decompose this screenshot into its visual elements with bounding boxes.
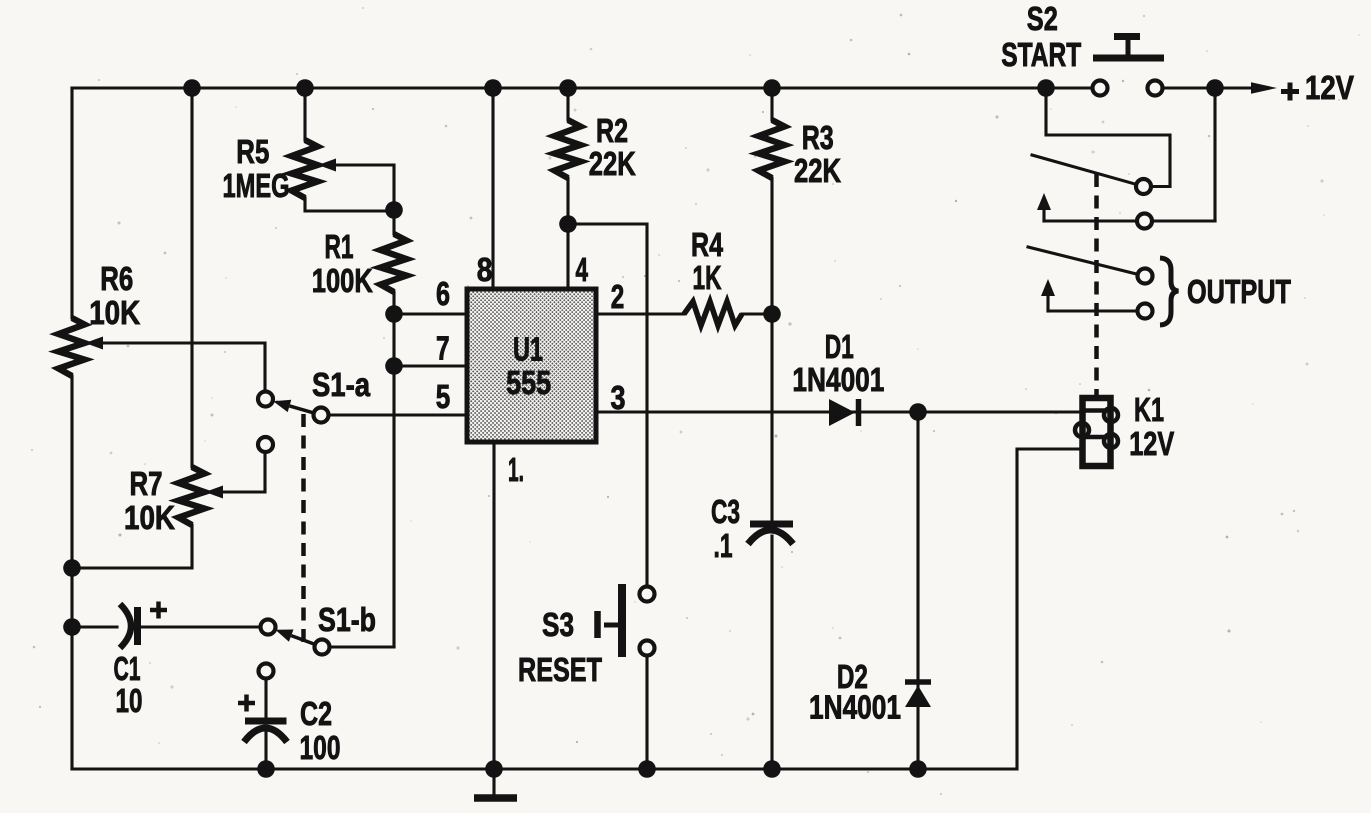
svg-text:R6: R6	[100, 260, 133, 297]
svg-text:2: 2	[611, 278, 625, 315]
svg-text:R7: R7	[130, 465, 163, 502]
svg-text:S2: S2	[1027, 0, 1058, 37]
svg-text:1K: 1K	[693, 259, 722, 296]
svg-text:6: 6	[436, 275, 450, 312]
svg-text:8: 8	[477, 251, 493, 288]
svg-text:7: 7	[436, 330, 450, 367]
svg-text:S1-b: S1-b	[318, 601, 376, 638]
svg-text:100K: 100K	[312, 262, 373, 299]
svg-text:C3: C3	[711, 493, 740, 530]
svg-text:1.: 1.	[508, 451, 524, 488]
svg-text:5: 5	[436, 378, 451, 415]
svg-text:R3: R3	[802, 119, 834, 156]
svg-text:R1: R1	[325, 228, 354, 265]
svg-text:D1: D1	[825, 328, 854, 365]
svg-text:S3: S3	[542, 606, 574, 643]
svg-text:R5: R5	[236, 133, 269, 170]
svg-text:12V: 12V	[1129, 425, 1174, 462]
svg-text:10: 10	[116, 682, 143, 719]
svg-text:S1-a: S1-a	[312, 366, 371, 403]
svg-text:START: START	[1001, 36, 1081, 73]
svg-text:RESET: RESET	[518, 651, 602, 688]
svg-text:3: 3	[611, 379, 626, 416]
svg-text:22K: 22K	[589, 145, 636, 182]
svg-text:22K: 22K	[794, 152, 841, 189]
svg-text:100: 100	[300, 729, 341, 766]
svg-text:1N4001: 1N4001	[792, 361, 884, 398]
svg-text:K1: K1	[1134, 391, 1164, 428]
svg-text:R4: R4	[691, 226, 723, 263]
svg-text:10K: 10K	[89, 294, 140, 331]
svg-text:555: 555	[506, 364, 551, 401]
svg-text:1N4001: 1N4001	[809, 689, 901, 726]
svg-text:4: 4	[575, 251, 588, 288]
svg-text:10K: 10K	[124, 499, 175, 536]
svg-text:C2: C2	[300, 695, 332, 732]
svg-text:OUTPUT: OUTPUT	[1187, 273, 1291, 310]
svg-text:U1: U1	[513, 331, 543, 368]
svg-text:12V: 12V	[1305, 69, 1354, 106]
svg-text:.1: .1	[714, 527, 733, 564]
svg-text:R2: R2	[596, 112, 628, 149]
svg-text:1MEG: 1MEG	[223, 167, 290, 204]
